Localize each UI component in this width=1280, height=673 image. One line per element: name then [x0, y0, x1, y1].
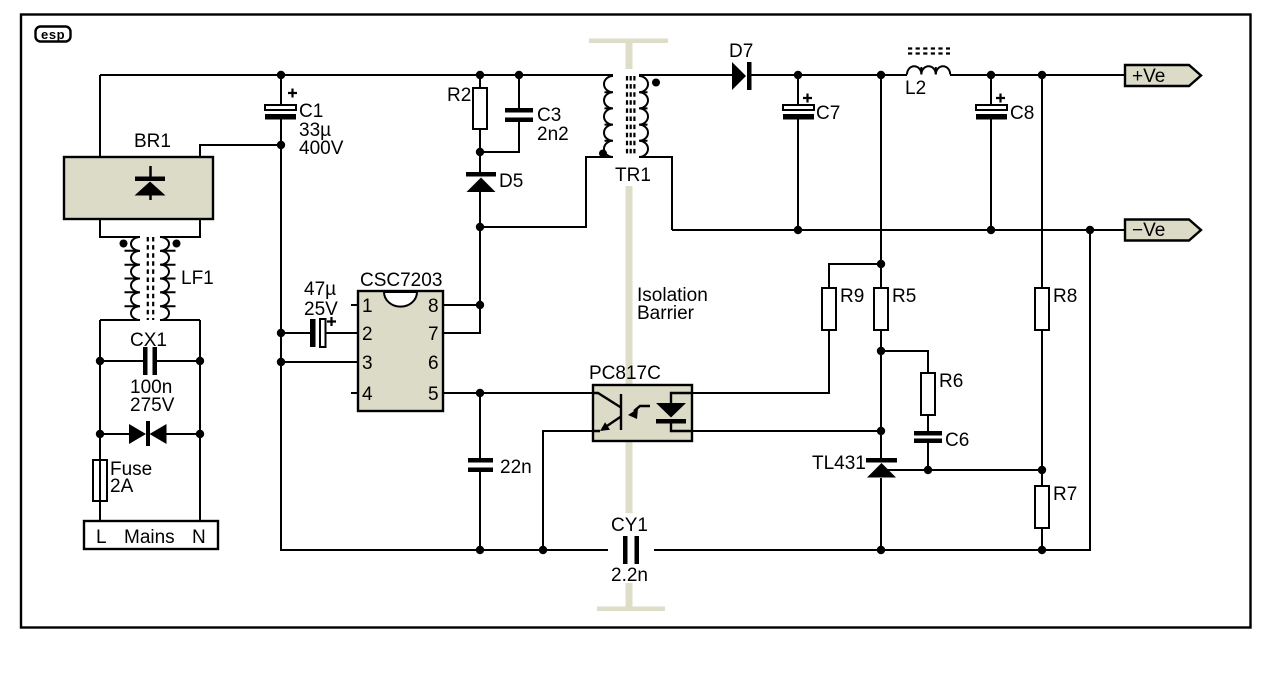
- svg-text:L2: L2: [905, 78, 926, 99]
- wire pin 8: [443, 304, 480, 306]
- TR1 phase dot secondary: [652, 79, 660, 87]
- wire pin 5 to optocoupler: [443, 392, 593, 394]
- -Ve output flag: [1125, 220, 1201, 242]
- svg-text:25V: 25V: [304, 299, 338, 320]
- diode D7: [729, 41, 753, 90]
- mains terminal block: [84, 521, 218, 549]
- capacitor 47u: [304, 279, 338, 347]
- resistor R7: [1035, 484, 1077, 528]
- capacitor C6: [914, 430, 969, 451]
- svg-text:C7: C7: [816, 103, 840, 124]
- capacitor CY1: [608, 513, 654, 586]
- capacitor C1: [265, 89, 344, 160]
- TR1 phase dot primary: [599, 150, 607, 158]
- wire R9 branch: [692, 264, 881, 393]
- TR1 primary winding: [604, 76, 613, 157]
- node TL431 cathode: [877, 427, 885, 435]
- diode D5: [466, 171, 523, 192]
- TR1 secondary winding: [639, 76, 648, 157]
- node R8 top: [1038, 71, 1046, 79]
- wire C7 column: [797, 75, 799, 230]
- svg-text:C6: C6: [945, 430, 969, 451]
- svg-text:2A: 2A: [110, 476, 134, 497]
- capacitor C3: [505, 105, 569, 145]
- wire BR1 to C1 bottom node: [200, 145, 281, 157]
- wire primary top rail: [100, 74, 613, 76]
- node R2/C3/D5: [476, 148, 484, 156]
- wire pin 1 stub: [351, 304, 358, 306]
- wire 22n column: [479, 393, 481, 550]
- LF1 right winding: [160, 237, 169, 320]
- transformer TR1: [599, 76, 660, 186]
- svg-text:PC817C: PC817C: [589, 363, 661, 384]
- wire left drop to BR1: [99, 75, 101, 157]
- wire CX1 row: [100, 360, 200, 362]
- node C1 bottom: [277, 141, 285, 149]
- node sense tap: [877, 71, 885, 79]
- inductor L2: [905, 49, 950, 100]
- node pin5: [476, 389, 484, 397]
- wire TR1 secondary bottom: [639, 157, 672, 230]
- wire opto cathode to TL431: [692, 430, 881, 432]
- node C8 bottom: [987, 226, 995, 234]
- wire TL431 ref to R7: [884, 469, 1042, 471]
- svg-text:C1: C1: [299, 101, 323, 122]
- svg-text:7: 7: [428, 324, 439, 345]
- resistor R2: [447, 85, 487, 129]
- TR1 core: [627, 76, 634, 157]
- wire C3 column: [480, 75, 519, 152]
- bridge rectifier BR1: [64, 131, 213, 219]
- LF1 phase dot right: [173, 240, 181, 248]
- svg-text:CSC7203: CSC7203: [360, 270, 442, 291]
- svg-text:BR1: BR1: [134, 131, 171, 152]
- node C3 top: [515, 71, 523, 79]
- svg-text:275V: 275V: [130, 395, 175, 416]
- node pin3: [277, 358, 285, 366]
- wire primary ground rail right of CY1: [639, 230, 1090, 550]
- svg-text:CX1: CX1: [130, 330, 167, 351]
- svg-text:R7: R7: [1053, 484, 1077, 505]
- wire voltage sense drop: [880, 75, 882, 264]
- resistor R6: [921, 371, 963, 415]
- wire pin 4 stub: [351, 392, 358, 394]
- svg-text:47µ: 47µ: [304, 279, 336, 300]
- wire LF1 bottoms: [100, 319, 200, 321]
- node dots: [96, 71, 1094, 554]
- svg-text:D5: D5: [499, 171, 523, 192]
- optocoupler PC817C: [589, 363, 692, 441]
- svg-text:2: 2: [362, 324, 373, 345]
- LF1 left winding: [131, 237, 140, 320]
- node pin8: [476, 301, 484, 309]
- node -Ve drop: [1086, 226, 1094, 234]
- node 22n bottom: [476, 546, 484, 554]
- svg-text:R6: R6: [939, 371, 963, 392]
- node C7 top: [794, 71, 802, 79]
- node TL431 anode: [877, 546, 885, 554]
- capacitor 22n: [468, 457, 532, 478]
- LF1 phase dot left: [120, 240, 128, 248]
- wire BR1 bottom pins to LF1: [100, 220, 200, 237]
- LF1 core: [148, 237, 153, 320]
- node C8 top: [987, 71, 995, 79]
- svg-text:C3: C3: [537, 105, 561, 126]
- svg-text:400V: 400V: [299, 138, 344, 159]
- isolation barrier bar: [589, 39, 668, 612]
- wire opto emitter to ground rail: [543, 431, 593, 550]
- node R5 bottom: [877, 347, 885, 355]
- svg-text:D7: D7: [729, 41, 753, 62]
- line filter LF1: [120, 237, 214, 320]
- wire D5 node to TR1 primary bottom: [480, 157, 613, 227]
- svg-text:2.2n: 2.2n: [611, 565, 648, 586]
- svg-text:6: 6: [428, 353, 439, 374]
- wire mains L column: [99, 320, 101, 521]
- node emitter ground: [539, 546, 547, 554]
- node TVS right: [196, 430, 204, 438]
- svg-text:C8: C8: [1010, 103, 1034, 124]
- node R9/R5 top: [877, 260, 885, 268]
- svg-text:R2: R2: [447, 85, 471, 106]
- svg-text:22n: 22n: [500, 457, 532, 478]
- ESP logo: [36, 27, 71, 42]
- resistor R5: [874, 286, 916, 330]
- TVS bidirectional diode: [129, 421, 167, 446]
- node R7 top: [1038, 466, 1046, 474]
- node CX1 right: [196, 357, 204, 365]
- node D5 anode: [476, 223, 484, 231]
- svg-text:2n2: 2n2: [537, 124, 569, 145]
- capacitor C7: [783, 94, 840, 125]
- wire -Ve rail: [672, 229, 1125, 231]
- svg-text:N: N: [192, 527, 206, 548]
- wire R5/TL431 column: [880, 264, 882, 550]
- capacitor CX1: [130, 330, 175, 416]
- svg-text:1: 1: [362, 296, 373, 317]
- wire pin 3: [281, 361, 358, 363]
- node R2 top: [476, 71, 484, 79]
- wire R8/R7 column: [1041, 75, 1043, 550]
- svg-text:R9: R9: [840, 286, 864, 307]
- shunt regulator TL431: [812, 453, 897, 478]
- wire R6/C6 branch: [881, 351, 928, 470]
- node C7 bottom: [794, 226, 802, 234]
- wire mains N column: [199, 320, 201, 521]
- node R7 bottom: [1038, 546, 1046, 554]
- svg-text:Barrier: Barrier: [637, 303, 695, 324]
- node C1 top: [277, 71, 285, 79]
- wire R2/D5 column: [443, 75, 480, 333]
- node C6 bottom: [924, 466, 932, 474]
- wire C8 column: [990, 75, 992, 230]
- +Ve output flag: [1125, 65, 1201, 87]
- svg-text:3: 3: [362, 353, 373, 374]
- svg-text:4: 4: [362, 384, 373, 405]
- svg-text:TL431: TL431: [812, 453, 866, 474]
- IC CSC7203: [358, 270, 443, 411]
- resistor R8: [1035, 286, 1077, 330]
- svg-text:LF1: LF1: [181, 268, 214, 289]
- svg-text:Mains: Mains: [124, 527, 175, 548]
- svg-text:CY1: CY1: [611, 515, 648, 536]
- wire 47u to rail and pin2: [281, 332, 358, 334]
- svg-text:R8: R8: [1053, 286, 1077, 307]
- Isolation Barrier label: [637, 285, 708, 324]
- svg-text:R5: R5: [892, 286, 916, 307]
- fuse F1: [93, 459, 152, 501]
- svg-text:esp: esp: [41, 27, 65, 42]
- svg-text:8: 8: [428, 296, 439, 317]
- svg-text:−Ve: −Ve: [1132, 220, 1165, 241]
- capacitor C8: [976, 94, 1034, 125]
- svg-text:+Ve: +Ve: [1132, 66, 1165, 87]
- svg-text:TR1: TR1: [615, 165, 651, 186]
- wire D7 to +Ve: [751, 74, 1125, 76]
- wire C1 column and primary ground rail: [281, 75, 623, 550]
- node 47u: [277, 329, 285, 337]
- resistor R9: [822, 286, 864, 330]
- wire TVS row: [100, 433, 200, 435]
- TR1 label: [612, 165, 657, 183]
- node TVS left: [96, 430, 104, 438]
- node CX1 left: [96, 357, 104, 365]
- svg-text:L: L: [96, 527, 107, 548]
- wire TR1 secondary top to D7: [639, 74, 732, 76]
- svg-text:5: 5: [428, 384, 439, 405]
